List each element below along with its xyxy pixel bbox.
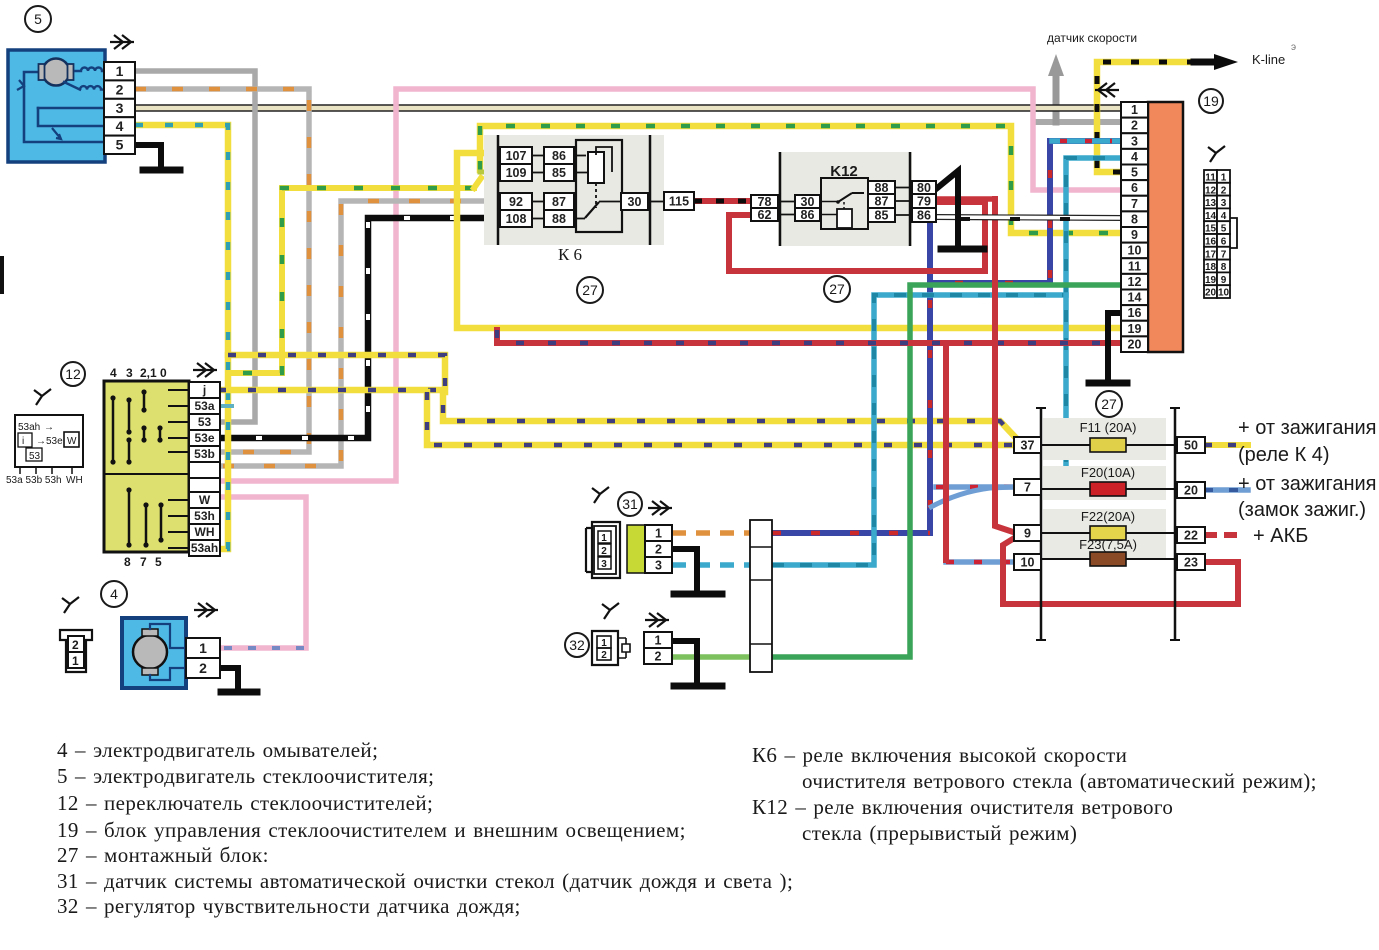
svg-text:j: j — [202, 383, 206, 397]
svg-text:92: 92 — [509, 195, 523, 209]
washer motor 4 — [122, 603, 220, 688]
wire steel-red to fuse 10 — [946, 559, 1015, 565]
svg-text:K-line: K-line — [1252, 52, 1285, 67]
svg-text:+ от зажигания: + от зажигания — [1238, 417, 1377, 439]
svg-text:4 – электродвигатель омывателе: 4 – электродвигатель омывателей; — [57, 738, 378, 762]
wire red vertical to fuse10 — [943, 344, 949, 560]
svg-text:7: 7 — [140, 555, 147, 569]
wire red fuse loop to 23 — [1003, 537, 1238, 604]
regulator 32 — [592, 603, 672, 665]
wire cyan to pin4 — [772, 158, 1121, 565]
svg-text:3: 3 — [1131, 134, 1138, 148]
svg-text:19: 19 — [1128, 322, 1142, 336]
svg-text:8: 8 — [1221, 262, 1227, 273]
wiper motor 5 — [8, 35, 135, 162]
svg-text:9: 9 — [1131, 228, 1138, 242]
svg-text:85: 85 — [875, 208, 889, 222]
svg-text:10: 10 — [1128, 244, 1142, 258]
wire red-black 115 to 78 — [694, 198, 751, 204]
svg-text:88: 88 — [552, 212, 566, 226]
wire green regulator to pin12 — [772, 285, 1121, 657]
svg-text:1: 1 — [116, 63, 124, 79]
svg-text:К6 – реле включения высокой ск: К6 – реле включения высокой скорости — [752, 743, 1127, 767]
svg-text:→: → — [44, 422, 54, 433]
svg-text:87: 87 — [875, 194, 889, 208]
svg-text:27 – монтажный блок:: 27 – монтажный блок: — [57, 843, 269, 867]
svg-text:W: W — [67, 436, 77, 447]
wire red K12 loop — [729, 199, 1016, 533]
svg-text:87: 87 — [552, 195, 566, 209]
wire thin white K12-86 to pin8 — [936, 217, 1121, 219]
wiper switch 12 — [104, 363, 220, 569]
ground block19 pin16 — [1089, 313, 1127, 383]
node 4 marker — [101, 581, 127, 607]
svg-text:53: 53 — [198, 415, 212, 429]
svg-text:17: 17 — [1205, 249, 1217, 260]
wire yellow-green riser — [474, 178, 481, 188]
svg-text:53h: 53h — [194, 509, 215, 523]
wire pink W to washer motor — [218, 497, 306, 648]
svg-text:WH: WH — [66, 475, 83, 486]
svg-text:31 – датчик системы автоматиче: 31 – датчик системы автоматической очист… — [57, 869, 793, 893]
switch state table — [6, 389, 83, 486]
node 12 marker — [61, 362, 85, 386]
svg-text:109: 109 — [506, 166, 527, 180]
wire yellow fuse50 out — [1204, 442, 1248, 448]
svg-text:+ АКБ: + АКБ — [1253, 525, 1308, 547]
svg-text:3: 3 — [1221, 198, 1227, 209]
wire steel fuse20 out — [1204, 487, 1248, 493]
svg-text:108: 108 — [506, 212, 527, 226]
svg-text:3: 3 — [601, 559, 607, 570]
wire yellow-teal motor pin4 to switch — [135, 125, 228, 549]
svg-text:5 – электродвигатель стеклоочи: 5 – электродвигатель стеклоочистителя; — [57, 764, 434, 788]
wire yellow-navy bundle C — [427, 392, 1016, 445]
svg-text:1: 1 — [199, 640, 207, 656]
svg-text:i: i — [22, 436, 24, 447]
wire cyan vertical branch — [1063, 295, 1069, 485]
svg-text:5: 5 — [34, 11, 42, 27]
wire teal stub 53a — [220, 404, 232, 408]
wire orange dashed sensor31 pin1 — [672, 530, 750, 536]
svg-text:13: 13 — [1205, 198, 1217, 209]
svg-text:4: 4 — [116, 118, 124, 134]
wire steel-red to fuse 7 — [936, 484, 1015, 490]
svg-text:8: 8 — [1131, 212, 1138, 226]
svg-text:53b: 53b — [194, 447, 215, 461]
svg-text:107: 107 — [506, 149, 527, 163]
svg-text:86: 86 — [801, 208, 815, 222]
svg-text:20: 20 — [1184, 483, 1198, 497]
svg-text:3: 3 — [116, 100, 124, 116]
svg-text:2: 2 — [199, 660, 207, 676]
svg-text:э: э — [1291, 42, 1296, 53]
wire yellow-navy bundle B — [218, 390, 1018, 444]
svg-text:85: 85 — [552, 166, 566, 180]
wire navy-red to sensor31 — [772, 530, 930, 536]
svg-text:27: 27 — [1101, 396, 1117, 412]
svg-text:7: 7 — [1131, 197, 1138, 211]
svg-text:30: 30 — [801, 195, 815, 209]
svg-text:3: 3 — [126, 366, 133, 380]
svg-text:50: 50 — [1184, 438, 1198, 452]
svg-text:78: 78 — [758, 195, 772, 209]
svg-text:F22(20A): F22(20A) — [1081, 509, 1135, 524]
svg-text:F20(10A): F20(10A) — [1081, 465, 1135, 480]
svg-text:W: W — [199, 493, 211, 507]
wire pink W to block19 pin6 — [218, 89, 1121, 481]
svg-text:датчик скорости: датчик скорости — [1047, 31, 1137, 45]
svg-text:19: 19 — [1203, 93, 1219, 109]
svg-text:3: 3 — [655, 558, 662, 572]
wire navy vertical upper stub — [927, 192, 933, 283]
svg-text:очистителя ветрового стекла (а: очистителя ветрового стекла (автоматичес… — [802, 769, 1317, 793]
svg-text:9: 9 — [1221, 275, 1227, 286]
svg-text:+ от зажигания: + от зажигания — [1238, 473, 1377, 495]
svg-text:14: 14 — [1128, 291, 1142, 305]
wire pink-blue dashes into motor4 — [224, 646, 304, 650]
svg-text:53ah: 53ah — [18, 422, 40, 433]
svg-text:1: 1 — [655, 633, 662, 647]
svg-text:32: 32 — [569, 637, 585, 653]
wire yellow-green branch to switch — [230, 188, 474, 373]
wire navy pin3 vertical — [930, 141, 1121, 533]
node 5 marker — [25, 6, 51, 32]
svg-text:F11 (20A): F11 (20A) — [1080, 420, 1137, 435]
svg-text:53a 53b 53h: 53a 53b 53h — [6, 475, 62, 486]
svg-text:2,1: 2,1 — [140, 366, 157, 380]
svg-text:WH: WH — [195, 525, 215, 539]
wire black dashed K6-108 to 53e — [220, 218, 502, 438]
wire red AKB — [1204, 532, 1244, 538]
svg-text:31: 31 — [622, 496, 638, 512]
svg-text:16: 16 — [1128, 306, 1142, 320]
relay K6 — [484, 135, 694, 264]
relay K12 — [751, 152, 936, 246]
junction strip — [750, 520, 772, 672]
svg-text:(реле К 4): (реле К 4) — [1238, 444, 1330, 466]
ground sensor31 — [672, 549, 722, 594]
svg-text:37: 37 — [1021, 438, 1035, 452]
wire beige motor to pin1 — [135, 104, 1121, 112]
svg-text:2: 2 — [1131, 119, 1138, 133]
svg-text:22: 22 — [1184, 528, 1198, 542]
node 27 marker K12 — [824, 276, 850, 302]
wire gray motor pin1 to switch 53 — [135, 71, 255, 422]
svg-text:К 6: К 6 — [558, 245, 582, 264]
svg-text:12: 12 — [65, 366, 81, 382]
svg-text:20: 20 — [1128, 337, 1142, 351]
wire gray-orange motor pin2 to 53b — [135, 89, 309, 452]
svg-text:1: 1 — [1131, 103, 1138, 117]
legend left column — [57, 738, 793, 918]
svg-text:62: 62 — [758, 208, 772, 222]
wire red-navy to pin20 — [497, 330, 1121, 343]
svg-text:115: 115 — [669, 194, 689, 208]
wire yellow-green K6 to pin9 — [480, 126, 1121, 233]
svg-text:30: 30 — [628, 195, 642, 209]
svg-text:12: 12 — [1205, 185, 1217, 196]
wire K-line — [1097, 54, 1238, 172]
svg-text:4: 4 — [110, 366, 117, 380]
fuse block 27 — [1014, 408, 1205, 640]
svg-text:15: 15 — [1205, 224, 1217, 235]
wire yellow-green diag into 109 — [480, 170, 501, 175]
svg-text:23: 23 — [1184, 555, 1198, 569]
svg-text:2: 2 — [72, 638, 79, 652]
wire teal-red into pin3 — [1052, 138, 1119, 144]
ground motor5 — [135, 145, 180, 170]
connector grid 19 — [1204, 146, 1237, 299]
node 32 marker — [565, 633, 589, 657]
svg-text:1: 1 — [655, 526, 662, 540]
svg-text:80: 80 — [917, 181, 931, 195]
svg-text:2: 2 — [601, 546, 607, 557]
label ignition relay — [1238, 417, 1377, 466]
svg-text:5: 5 — [116, 137, 124, 153]
svg-text:27: 27 — [582, 282, 598, 298]
svg-text:53a: 53a — [194, 399, 214, 413]
svg-text:4: 4 — [1221, 211, 1227, 222]
svg-text:6: 6 — [1131, 181, 1138, 195]
svg-text:12: 12 — [1128, 275, 1142, 289]
svg-text:88: 88 — [875, 181, 889, 195]
node 19 marker — [1199, 89, 1223, 113]
wire steel curve — [929, 487, 1014, 508]
legend right column — [752, 743, 1317, 845]
wire gray-orange K6-92 to switch — [220, 201, 502, 466]
svg-text:2: 2 — [1221, 185, 1227, 196]
ground washer motor4 — [220, 668, 257, 692]
svg-text:86: 86 — [552, 149, 566, 163]
node left edge mark — [0, 256, 4, 294]
svg-text:стекла (прерывистый режим): стекла (прерывистый режим) — [802, 821, 1077, 845]
svg-text:1: 1 — [72, 654, 79, 668]
svg-text:79: 79 — [917, 194, 931, 208]
svg-text:16: 16 — [1205, 237, 1217, 248]
ground K12 pin80 — [936, 171, 984, 249]
svg-text:1: 1 — [1221, 173, 1227, 184]
svg-text:86: 86 — [917, 208, 931, 222]
wire yellow K6-107 to pin19 — [457, 153, 1121, 328]
wire speed sensor gray — [1034, 54, 1121, 122]
svg-text:2: 2 — [601, 650, 607, 661]
svg-text:(замок зажиг.): (замок зажиг.) — [1238, 499, 1366, 521]
svg-text:7: 7 — [1221, 249, 1227, 260]
node 27 marker fuse — [1096, 391, 1122, 417]
svg-text:27: 27 — [829, 281, 845, 297]
svg-text:5: 5 — [155, 555, 162, 569]
wire yellow-navy bundle A — [228, 355, 445, 392]
ground regulator32 — [672, 641, 722, 686]
svg-text:2: 2 — [655, 649, 662, 663]
svg-text:53: 53 — [29, 451, 41, 462]
connector symbol comp4 — [60, 597, 92, 672]
svg-text:К12 – реле включения очистител: К12 – реле включения очистителя ветровог… — [752, 795, 1173, 819]
svg-text:18: 18 — [1205, 262, 1217, 273]
node 31 marker — [618, 492, 642, 516]
svg-text:1: 1 — [601, 533, 607, 544]
svg-text:14: 14 — [1205, 211, 1217, 222]
svg-text:11: 11 — [1205, 173, 1216, 184]
node 27 marker K6 — [577, 277, 603, 303]
wire green comp32 stub — [672, 654, 750, 660]
svg-text:11: 11 — [1128, 259, 1141, 273]
svg-text:32 – регулятор чувствительност: 32 – регулятор чувствительности датчика … — [57, 894, 521, 918]
svg-text:53e: 53e — [194, 431, 214, 445]
svg-text:10: 10 — [1218, 288, 1230, 299]
control unit 19 — [1095, 83, 1183, 352]
svg-text:53ah: 53ah — [191, 541, 218, 555]
rain sensor 31 — [586, 487, 672, 578]
svg-text:0: 0 — [160, 366, 167, 380]
label ignition lock — [1238, 473, 1377, 521]
svg-text:8: 8 — [124, 555, 131, 569]
svg-text:10: 10 — [1021, 555, 1035, 569]
svg-text:9: 9 — [1024, 526, 1031, 540]
svg-text:19 – блок управления стеклоочи: 19 – блок управления стеклоочистителем и… — [57, 818, 686, 842]
svg-text:12 – переключатель стеклоочист: 12 – переключатель стеклоочистителей; — [57, 791, 433, 815]
wire cyan sensor31 pin3 dashed — [672, 562, 750, 568]
svg-text:F23(7,5A): F23(7,5A) — [1079, 537, 1137, 552]
svg-text:7: 7 — [1024, 480, 1031, 494]
svg-text:4: 4 — [110, 586, 118, 602]
svg-text:4: 4 — [1131, 150, 1138, 164]
svg-text:2: 2 — [116, 81, 124, 97]
svg-text:5: 5 — [1221, 224, 1227, 235]
svg-text:19: 19 — [1205, 275, 1217, 286]
svg-text:→53e: →53e — [36, 436, 63, 447]
svg-text:2: 2 — [655, 542, 662, 556]
svg-text:6: 6 — [1221, 237, 1227, 248]
svg-text:20: 20 — [1205, 288, 1217, 299]
svg-text:5: 5 — [1131, 166, 1138, 180]
